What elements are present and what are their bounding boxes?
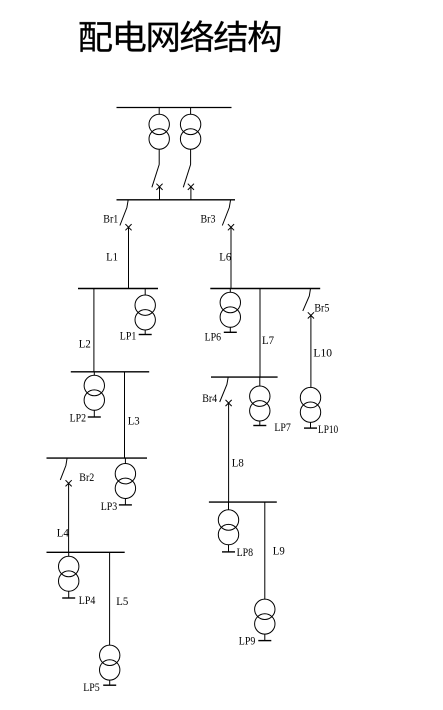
svg-text:LP4: LP4: [79, 595, 96, 607]
svg-text:L7: L7: [262, 335, 274, 347]
svg-text:L2: L2: [79, 338, 91, 350]
svg-text:L5: L5: [116, 596, 128, 608]
svg-text:LP7: LP7: [274, 422, 291, 434]
svg-text:LP9: LP9: [239, 635, 256, 647]
svg-text:Br4: Br4: [202, 393, 217, 405]
svg-text:LP3: LP3: [101, 501, 118, 513]
svg-text:L6: L6: [219, 252, 231, 264]
svg-text:LP6: LP6: [205, 332, 222, 344]
svg-text:LP5: LP5: [83, 682, 100, 694]
svg-text:Br2: Br2: [79, 472, 94, 484]
svg-text:LP8: LP8: [237, 547, 254, 559]
svg-text:L9: L9: [273, 545, 285, 557]
svg-text:Br3: Br3: [201, 214, 216, 226]
svg-text:Br1: Br1: [103, 214, 118, 226]
svg-text:LP10: LP10: [318, 424, 338, 436]
svg-text:L10: L10: [313, 348, 332, 360]
svg-text:LP2: LP2: [70, 413, 87, 425]
svg-text:L8: L8: [232, 458, 244, 470]
svg-text:L3: L3: [128, 416, 140, 428]
svg-text:LP1: LP1: [120, 330, 137, 342]
svg-text:L1: L1: [106, 251, 118, 263]
svg-text:Br5: Br5: [314, 303, 329, 315]
svg-text:L4: L4: [57, 527, 69, 539]
